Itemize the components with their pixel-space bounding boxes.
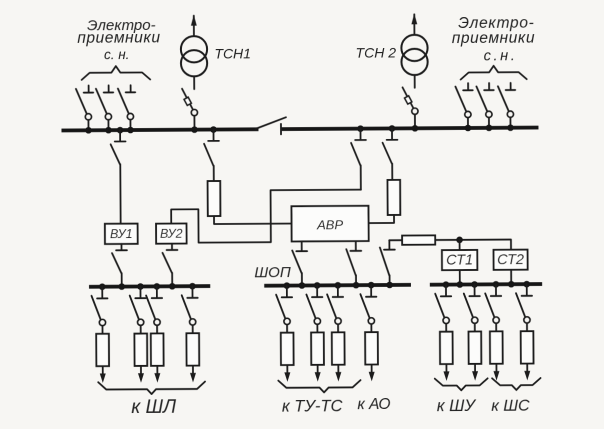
fixed contact T-bar of feeder 2 to ШС <box>522 295 532 297</box>
open blade of disconnect switch below ВУ1 <box>112 253 121 273</box>
svg-text:СТ2: СТ2 <box>497 252 524 268</box>
hinge circle of feeder 2 to ШУ <box>472 317 478 323</box>
fixed contact T-bar of disconnect switch on fuse F3 tap <box>384 249 395 251</box>
secondary winding circle of ТСН1 <box>181 50 207 76</box>
wire from switch A to ВУ2 top <box>171 190 361 243</box>
rectifier unit ВУ2 <box>156 224 187 244</box>
upper stub of disconnect switch below ВУ2 <box>171 244 173 250</box>
load switch S6 (right с.н. group) <box>498 83 516 131</box>
svg-text:ШОП: ШОП <box>254 264 291 281</box>
lower stub of output switch of АВР (terminal 2) <box>355 275 357 285</box>
junction dot of fuse F3 tap on ШОП bus <box>386 282 393 289</box>
fixed contact T-bar of output switch of АВР (terminal 1) <box>296 250 307 252</box>
svg-text:к ШС: к ШС <box>491 398 530 415</box>
outgoing arrow of feeder 1 to ШС <box>495 364 497 377</box>
junction dot of load switch S3 (left с.н. group) on bus <box>127 127 134 134</box>
transformer ТСН1 <box>181 14 252 133</box>
fixed contact T-bar of feeder 2 to ШЛ <box>135 297 145 299</box>
hinge circle of feeder 2 to ШЛ <box>138 319 144 325</box>
output switch of АВР (terminal 1) <box>292 241 307 285</box>
upper stub of feeder 1 to ТУ-ТС <box>286 286 288 297</box>
junction dot of feeder 1 to ШУ <box>443 281 450 288</box>
feeder 4 to ШЛ <box>182 283 200 383</box>
fixed contact T-bar of output switch of АВР (terminal 2) <box>350 250 361 252</box>
lower stub of disconnect switch above fuse F1 <box>213 166 215 181</box>
fixed contact T-bar of disconnect switch B above fuse F2 <box>387 139 398 141</box>
fuse of feeder 2 to ТУ-ТС <box>311 332 324 364</box>
label Электроприемники с.н. (left) <box>77 17 161 63</box>
upper stub of output switch of АВР (terminal 1) <box>301 241 303 250</box>
lower stub of disconnect switch below ВУ2 <box>171 273 173 286</box>
fuse of feeder 3 to ТУ-ТС <box>332 332 345 364</box>
svg-text:ВУ2: ВУ2 <box>160 227 183 241</box>
fuse of feeder 2 to ШУ <box>469 332 482 364</box>
load switch S1 (left с.н. group) <box>76 85 94 133</box>
svg-text:СТ1: СТ1 <box>446 252 473 268</box>
open blade of load switch S3 (left с.н. group) <box>118 89 129 114</box>
open blade of load switch S6 (right с.н. group) <box>498 86 509 111</box>
open blade of feeder 4 to ШЛ <box>182 295 191 319</box>
junction dot of СТ1 on right lower bus <box>457 281 464 288</box>
open blade of feeder 2 to ШС <box>516 293 525 317</box>
fixed contact T-bar of feeder 2 to ШУ <box>469 295 479 297</box>
svg-text:ТСН1: ТСН1 <box>214 45 251 61</box>
fuse of feeder 2 to ШЛ <box>134 334 147 366</box>
hinge circle of feeder to АО <box>368 318 374 324</box>
secondary lead wire of ТСН1 <box>193 76 195 89</box>
outgoing arrow of feeder 2 to ТУ-ТС <box>317 365 319 378</box>
open blade of feeder to АО <box>360 294 369 318</box>
primary winding circle of ТСН1 <box>181 36 207 62</box>
wire from hinge to fuse of feeder 4 to ШЛ <box>192 325 194 333</box>
open blade of output switch of АВР (terminal 1) <box>292 250 301 273</box>
open blade of disconnect switch B above fuse F2 <box>383 143 392 164</box>
open blade of feeder 2 to ШЛ <box>130 295 139 319</box>
fuse of feeder 2 to ШС <box>521 331 534 363</box>
svg-text:к ШЛ: к ШЛ <box>131 397 177 418</box>
load switch S4 (right с.н. group) <box>455 83 473 131</box>
wire from hinge to fuse of feeder 1 to ШС <box>495 323 497 331</box>
upper stub of disconnect switch on fuse F3 tap <box>388 240 390 249</box>
starter СТ1 <box>442 250 477 270</box>
upper stub of output switch of АВР (terminal 2) <box>355 241 357 250</box>
svg-text:с.н.: с.н. <box>484 48 518 64</box>
wire from СТ2 to right lower bus <box>510 270 512 284</box>
fuse F3 (horizontal) <box>402 235 435 244</box>
upper stub of feeder 2 to ШУ <box>474 284 476 295</box>
disconnect switch A (АВР sensing, left) <box>351 125 366 189</box>
fixed contact T-bar of disconnect switch above fuse F1 <box>208 140 219 142</box>
hinge circle of load switch S3 (left с.н. group) <box>127 113 133 119</box>
hinge circle of feeder 1 to ШУ <box>443 317 449 323</box>
wire from fuse F3 to СТ1 and СТ2 <box>435 240 511 251</box>
wire from hinge to fuse of feeder 3 to ТУ-ТС <box>337 324 339 332</box>
hinge circle of feeder 1 to ШЛ <box>99 319 105 325</box>
outgoing arrow of feeder 2 to ШУ <box>474 364 476 377</box>
wire stub of load switch S6 (right с.н. group) to bus <box>509 117 511 127</box>
breaker fuse square of ТСН2 <box>405 96 412 104</box>
hinge circle of load switch S5 (right с.н. group) <box>486 111 492 117</box>
fixed contact bar of load switch S4 (right с.н. group) <box>463 83 473 90</box>
lower stub of disconnect switch B above fuse F2 <box>391 164 393 180</box>
brace over left с.н. load group <box>82 66 151 80</box>
junction dot of feeder 2 to ШС <box>523 281 530 288</box>
junction dot of feeder to АО <box>368 282 375 289</box>
output switch of АВР (terminal 2) <box>346 241 361 285</box>
lower stub of disconnect switch on fuse F3 tap <box>389 275 391 285</box>
rectifier unit ВУ1 <box>105 224 138 244</box>
outgoing arrow of feeder 2 to ШС <box>526 364 528 377</box>
fuse of feeder 1 to ШЛ <box>96 334 109 366</box>
feeder 1 to ШУ <box>435 281 453 381</box>
outgoing arrow of feeder 1 to ШЛ <box>102 366 104 379</box>
brace under ШС feeders <box>492 378 540 390</box>
brace under ТУ-ТС feeders <box>278 380 360 393</box>
stub of ТСН1 to bus <box>193 116 195 130</box>
secondary lead wire of ТСН2 <box>414 75 416 88</box>
outgoing arrow of feeder 1 to ШУ <box>445 364 447 377</box>
disconnect switch below ВУ1 <box>112 244 127 287</box>
fixed contact bar of load switch S6 (right с.н. group) <box>506 83 516 90</box>
junction dot of load switch S4 (right с.н. group) on bus <box>465 125 472 132</box>
feeder 2 to ТУ-ТС <box>306 282 324 382</box>
feeder 2 to ШУ <box>464 281 482 381</box>
open blade of load switch S1 (left с.н. group) <box>76 89 87 114</box>
fuse of feeder to АО <box>365 332 378 364</box>
upper stub of feeder 4 to ШЛ <box>191 286 193 297</box>
junction dot of feeder 2 to ТУ-ТС <box>314 282 321 289</box>
junction dot of load switch S1 (left с.н. group) on bus <box>85 127 92 134</box>
wire from hinge to fuse of feeder to АО <box>370 324 372 332</box>
fixed contact T-bar of disconnect switch above ВУ1 <box>115 140 126 142</box>
disconnect switch B above fuse F2 <box>382 125 397 180</box>
lower stub of disconnect switch A (АВР sensing, left) <box>360 165 362 189</box>
open blade of feeder 1 to ТУ-ТС <box>276 295 285 319</box>
primary winding circle of ТСН2 <box>401 35 427 61</box>
hinge circle of ТСН1 breaker <box>191 109 197 115</box>
wire from hinge to fuse of feeder 1 to ТУ-ТС <box>286 324 288 332</box>
incoming supply arrow of ТСН1 <box>193 16 195 36</box>
upper stub of feeder 3 to ШЛ <box>156 286 158 297</box>
upper stub of feeder 2 to ТУ-ТС <box>316 285 318 296</box>
open blade of feeder 3 to ТУ-ТС <box>327 294 336 318</box>
junction dot of feeder 3 to ШЛ <box>154 283 161 290</box>
fuse of feeder 1 to ШС <box>490 331 503 363</box>
feeder 2 to ШС <box>516 281 534 381</box>
fuse F2 <box>387 180 400 215</box>
automatic transfer unit АВР <box>291 206 368 242</box>
junction dot of disconnect switch B above fuse F2 <box>389 125 396 132</box>
upper stub of feeder 3 to ТУ-ТС <box>337 285 339 296</box>
fixed contact T-bar of feeder 1 to ШЛ <box>97 297 107 299</box>
open blade of feeder 2 to ШУ <box>464 293 473 317</box>
open blade of feeder 2 to ТУ-ТС <box>306 294 315 318</box>
hinge circle of feeder 3 to ТУ-ТС <box>335 318 341 324</box>
junction dot of feeder 1 to ШЛ <box>99 283 106 290</box>
junction dot of load switch S6 (right с.н. group) on bus <box>507 124 514 131</box>
upper stub of feeder 1 to ШЛ <box>101 287 103 298</box>
open blade of disconnect switch A (АВР sensing, left) <box>351 143 360 166</box>
junction dot of АВР terminal 1 on ШОП bus <box>299 282 306 289</box>
wire from hinge to fuse of feeder 1 to ШУ <box>445 324 447 332</box>
outgoing arrow of feeder 3 to ТУ-ТС <box>337 365 339 378</box>
disconnect switch on fuse F3 tap <box>380 240 395 285</box>
fixed contact T-bar of feeder 1 to ШС <box>491 295 501 297</box>
wire from F3 tap switch to fuse F3 <box>389 239 402 241</box>
upper stub of disconnect switch below ВУ1 <box>120 244 122 250</box>
svg-text:приемники: приемники <box>77 29 160 47</box>
wire from hinge to fuse of feeder 2 to ШУ <box>474 323 476 331</box>
fuse F1 <box>208 181 221 216</box>
wire stub of load switch S3 (left с.н. group) to bus <box>129 120 131 130</box>
fixed contact T-bar of feeder 4 to ШЛ <box>187 297 197 299</box>
svg-text:к ШУ: к ШУ <box>437 397 477 415</box>
fixed contact T-bar of disconnect switch below ВУ1 <box>116 249 127 251</box>
junction node of СТ1 tap on fuse line <box>456 237 463 244</box>
open blade of disconnect switch on fuse F3 tap <box>380 247 389 275</box>
fixed contact T-bar of feeder 3 to ТУ-ТС <box>333 296 343 298</box>
label Электроприемники с.н. (right) <box>452 15 536 65</box>
disconnect switch above fuse F1 <box>204 126 219 181</box>
lower stub of output switch of АВР (terminal 1) <box>301 273 303 285</box>
open blade of disconnect switch below ВУ2 <box>163 253 172 273</box>
junction dot of feeder 3 to ТУ-ТС <box>335 282 342 289</box>
junction dot of АВР terminal 2 on ШОП bus <box>353 282 360 289</box>
open blade of disconnect switch above ВУ1 <box>111 144 120 164</box>
upper stub of feeder 1 to ШС <box>495 284 497 295</box>
svg-text:приемники: приемники <box>452 30 535 48</box>
load switch S5 (right с.н. group) <box>476 83 494 131</box>
wire from hinge to fuse of feeder 2 to ШС <box>526 323 528 331</box>
upper stub of feeder 2 to ШЛ <box>139 286 141 297</box>
bus-tie disconnect blade <box>255 117 286 129</box>
feeder 1 to ТУ-ТС <box>276 282 294 382</box>
open blade of feeder 1 to ШУ <box>435 294 444 318</box>
open blade of disconnect switch above fuse F1 <box>204 144 213 166</box>
open blade of feeder 3 to ШЛ <box>146 295 155 319</box>
fuse of feeder 1 to ТУ-ТС <box>281 333 294 365</box>
fixed contact bar of load switch S3 (left с.н. group) <box>126 85 136 92</box>
junction dot of ВУ1 drop on left lower bus <box>118 283 125 290</box>
upper stub of disconnect switch B above fuse F2 <box>391 128 393 139</box>
breaker blade of ТСН1 <box>182 89 193 111</box>
upper stub of disconnect switch above ВУ1 <box>119 130 121 141</box>
fuse of feeder 1 to ШУ <box>440 332 453 364</box>
outgoing arrow of feeder 1 to ТУ-ТС <box>286 365 288 378</box>
lower stub of disconnect switch below ВУ1 <box>121 273 123 286</box>
wire from hinge to fuse of feeder 1 to ШЛ <box>101 326 103 334</box>
open blade of output switch of АВР (terminal 2) <box>346 249 355 275</box>
open blade of load switch S2 (left с.н. group) <box>96 89 107 114</box>
svg-text:с. н.: с. н. <box>104 47 130 62</box>
svg-text:к АО: к АО <box>357 396 390 413</box>
starter СТ2 <box>494 250 528 270</box>
junction dot of ВУ2 drop on left lower bus <box>169 283 176 290</box>
fixed contact T-bar of feeder to АО <box>366 296 376 298</box>
feeder 3 to ШЛ <box>146 283 164 383</box>
right lower bus (к ШУ / к ШС section) <box>430 282 542 286</box>
junction dot of feeder 2 to ШУ <box>471 281 478 288</box>
svg-text:ВУ1: ВУ1 <box>110 227 133 241</box>
fixed contact T-bar of feeder 1 to ТУ-ТС <box>282 296 292 298</box>
outgoing arrow of feeder 2 to ШЛ <box>140 366 142 379</box>
brace under ШЛ feeders <box>98 382 205 395</box>
open blade of feeder 1 to ШЛ <box>91 296 100 320</box>
fuse of feeder 3 to ШЛ <box>151 333 164 365</box>
open blade of load switch S4 (right с.н. group) <box>455 86 466 111</box>
hinge circle of load switch S4 (right с.н. group) <box>465 111 471 117</box>
brace over right с.н. load group <box>461 66 527 80</box>
svg-text:АВР: АВР <box>316 217 343 232</box>
fixed contact T-bar of disconnect switch A (АВР sensing, left) <box>355 139 366 141</box>
fixed contact bar of load switch S5 (right с.н. group) <box>484 83 494 90</box>
transformer ТСН2 <box>355 13 428 132</box>
wire stub of load switch S4 (right с.н. group) to bus <box>467 118 469 128</box>
stub of ТСН2 to bus <box>414 114 416 128</box>
wire from hinge to fuse of feeder 2 to ШЛ <box>140 325 142 333</box>
feeder to АО <box>360 282 378 382</box>
feeder 2 to ШЛ <box>130 283 148 383</box>
junction dot of feeder 1 to ШС <box>493 281 500 288</box>
upper stub of feeder 1 to ШУ <box>445 285 447 296</box>
hinge circle of feeder 1 to ТУ-ТС <box>284 318 290 324</box>
junction dot of ТСН2 on bus <box>412 125 419 132</box>
open blade of load switch S5 (right с.н. group) <box>476 86 487 111</box>
wire from hinge to fuse of feeder 2 to ТУ-ТС <box>316 324 318 332</box>
breaker blade of ТСН2 <box>403 87 414 109</box>
wire stub of load switch S2 (left с.н. group) to bus <box>107 120 109 130</box>
hinge circle of feeder 3 to ШЛ <box>154 319 160 325</box>
hinge circle of ТСН2 breaker <box>412 108 418 114</box>
junction dot of disconnect switch above fuse F1 <box>210 126 217 133</box>
hinge circle of feeder 4 to ШЛ <box>190 319 196 325</box>
fixed contact T-bar of disconnect switch below ВУ2 <box>167 249 178 251</box>
junction dot of feeder 4 to ШЛ <box>189 283 196 290</box>
breaker fuse square of ТСН1 <box>184 97 191 105</box>
feeder 3 to ТУ-ТС <box>327 282 345 382</box>
fuse of feeder 4 to ШЛ <box>186 333 199 365</box>
open blade of feeder 1 to ШС <box>485 293 494 317</box>
hinge circle of load switch S2 (left с.н. group) <box>105 114 111 120</box>
junction dot of load switch S5 (right с.н. group) on bus <box>486 125 493 132</box>
upper stub of disconnect switch above fuse F1 <box>212 130 214 141</box>
junction dot of feeder 1 to ТУ-ТС <box>284 282 291 289</box>
left lower bus (к ШЛ section) <box>89 284 210 288</box>
middle lower bus ШОП <box>264 283 411 288</box>
junction dot of disconnect switch A (АВР sensing, left) <box>357 125 364 132</box>
hinge circle of feeder 2 to ТУ-ТС <box>314 318 320 324</box>
junction dot of ТСН1 on bus <box>191 126 198 133</box>
wire from fuse F2 to АВР right input <box>369 215 395 223</box>
svg-text:ТСН 2: ТСН 2 <box>356 44 397 60</box>
outgoing arrow of feeder to АО <box>371 364 373 377</box>
wire from hinge to fuse of feeder 3 to ШЛ <box>156 325 158 333</box>
incoming supply arrow of ТСН2 <box>413 14 415 34</box>
outgoing arrow of feeder 3 to ШЛ <box>156 366 158 379</box>
wire stub of load switch S5 (right с.н. group) to bus <box>488 117 490 127</box>
hinge circle of feeder 2 to ШС <box>524 317 530 323</box>
right section top bus <box>281 128 538 130</box>
wire from fuse F1 to АВР left input <box>214 216 292 224</box>
hinge circle of load switch S1 (left с.н. group) <box>85 114 91 120</box>
fixed contact T-bar of feeder 2 to ТУ-ТС <box>312 296 322 298</box>
fixed contact T-bar of feeder 3 to ШЛ <box>152 297 162 299</box>
disconnect switch below ВУ2 <box>162 244 177 287</box>
lower stub of disconnect switch above ВУ1 <box>119 164 121 223</box>
upper stub of disconnect switch A (АВР sensing, left) <box>359 129 361 140</box>
hinge circle of load switch S6 (right с.н. group) <box>507 111 513 117</box>
junction dot of СТ2 on right lower bus <box>508 281 515 288</box>
feeder 1 to ШС <box>485 281 503 381</box>
bus-tie fixed contact tick <box>280 124 282 134</box>
fixed contact bar of load switch S1 (left с.н. group) <box>84 85 94 92</box>
feeder 1 to ШЛ <box>91 283 109 383</box>
svg-text:к ТУ-ТС: к ТУ-ТС <box>282 397 343 415</box>
load switch S3 (left с.н. group) <box>118 85 136 133</box>
brace under ШУ feeders <box>435 378 488 390</box>
fixed contact bar of load switch S2 (left с.н. group) <box>104 85 114 92</box>
junction dot of feeder 2 to ШЛ <box>137 283 144 290</box>
upper stub of feeder 2 to ШС <box>526 284 528 295</box>
hinge circle of feeder 1 to ШС <box>493 317 499 323</box>
outgoing arrow of feeder 4 to ШЛ <box>192 366 194 379</box>
disconnect switch above ВУ1 <box>111 127 126 224</box>
load switch S2 (left с.н. group) <box>96 85 114 133</box>
junction dot of disconnect switch above ВУ1 <box>117 127 124 134</box>
left section top bus <box>61 129 258 130</box>
fixed contact T-bar of feeder 1 to ШУ <box>441 295 451 297</box>
upper stub of feeder to АО <box>370 285 372 296</box>
wire stub of load switch S1 (left с.н. group) to bus <box>87 120 89 130</box>
wire from СТ1 to right lower bus <box>459 270 461 284</box>
junction dot of load switch S2 (left с.н. group) on bus <box>105 127 112 134</box>
wire from fuse line down to СТ1 <box>459 240 461 250</box>
secondary winding circle of ТСН2 <box>401 49 427 75</box>
